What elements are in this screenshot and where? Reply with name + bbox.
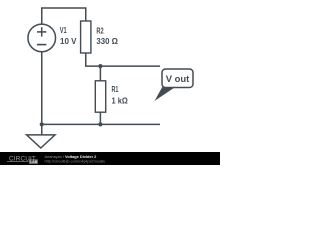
ground — [27, 135, 55, 148]
svg-text:R2: R2 — [96, 25, 104, 35]
wire from V1 top to R2 top — [42, 8, 86, 24]
svg-text:V out: V out — [166, 74, 190, 84]
bottom rail wire — [42, 123, 160, 125]
svg-text:V1: V1 — [60, 25, 67, 35]
svg-text:LAB: LAB — [30, 160, 38, 164]
resistor R2 — [81, 21, 91, 53]
voltage source V1 — [28, 24, 56, 52]
wire stub to ground symbol — [41, 124, 43, 134]
node junction Vout on mid rail — [98, 64, 102, 68]
footer CircuitLab logo — [7, 155, 38, 164]
svg-text:10 V: 10 V — [60, 36, 77, 46]
svg-text:R1: R1 — [112, 84, 119, 94]
node junction at ground — [40, 122, 44, 126]
svg-text:330 Ω: 330 Ω — [96, 36, 118, 46]
wire V1 bottom down to bottom rail — [41, 52, 43, 125]
footer watermark bar — [0, 152, 220, 165]
wire from junction down to R1 — [99, 66, 101, 81]
resistor R1 — [95, 81, 105, 112]
svg-text:http://circuitlab.com/c4y4ps2m: http://circuitlab.com/c4y4ps2msa8u — [45, 159, 106, 164]
net flag V out callout — [155, 69, 193, 101]
node junction at R1 bottom — [98, 122, 102, 126]
svg-text:1 kΩ: 1 kΩ — [112, 95, 129, 105]
wire from R1 bottom to bottom rail — [99, 112, 101, 124]
wire from R2 bottom to mid rail — [86, 53, 160, 66]
